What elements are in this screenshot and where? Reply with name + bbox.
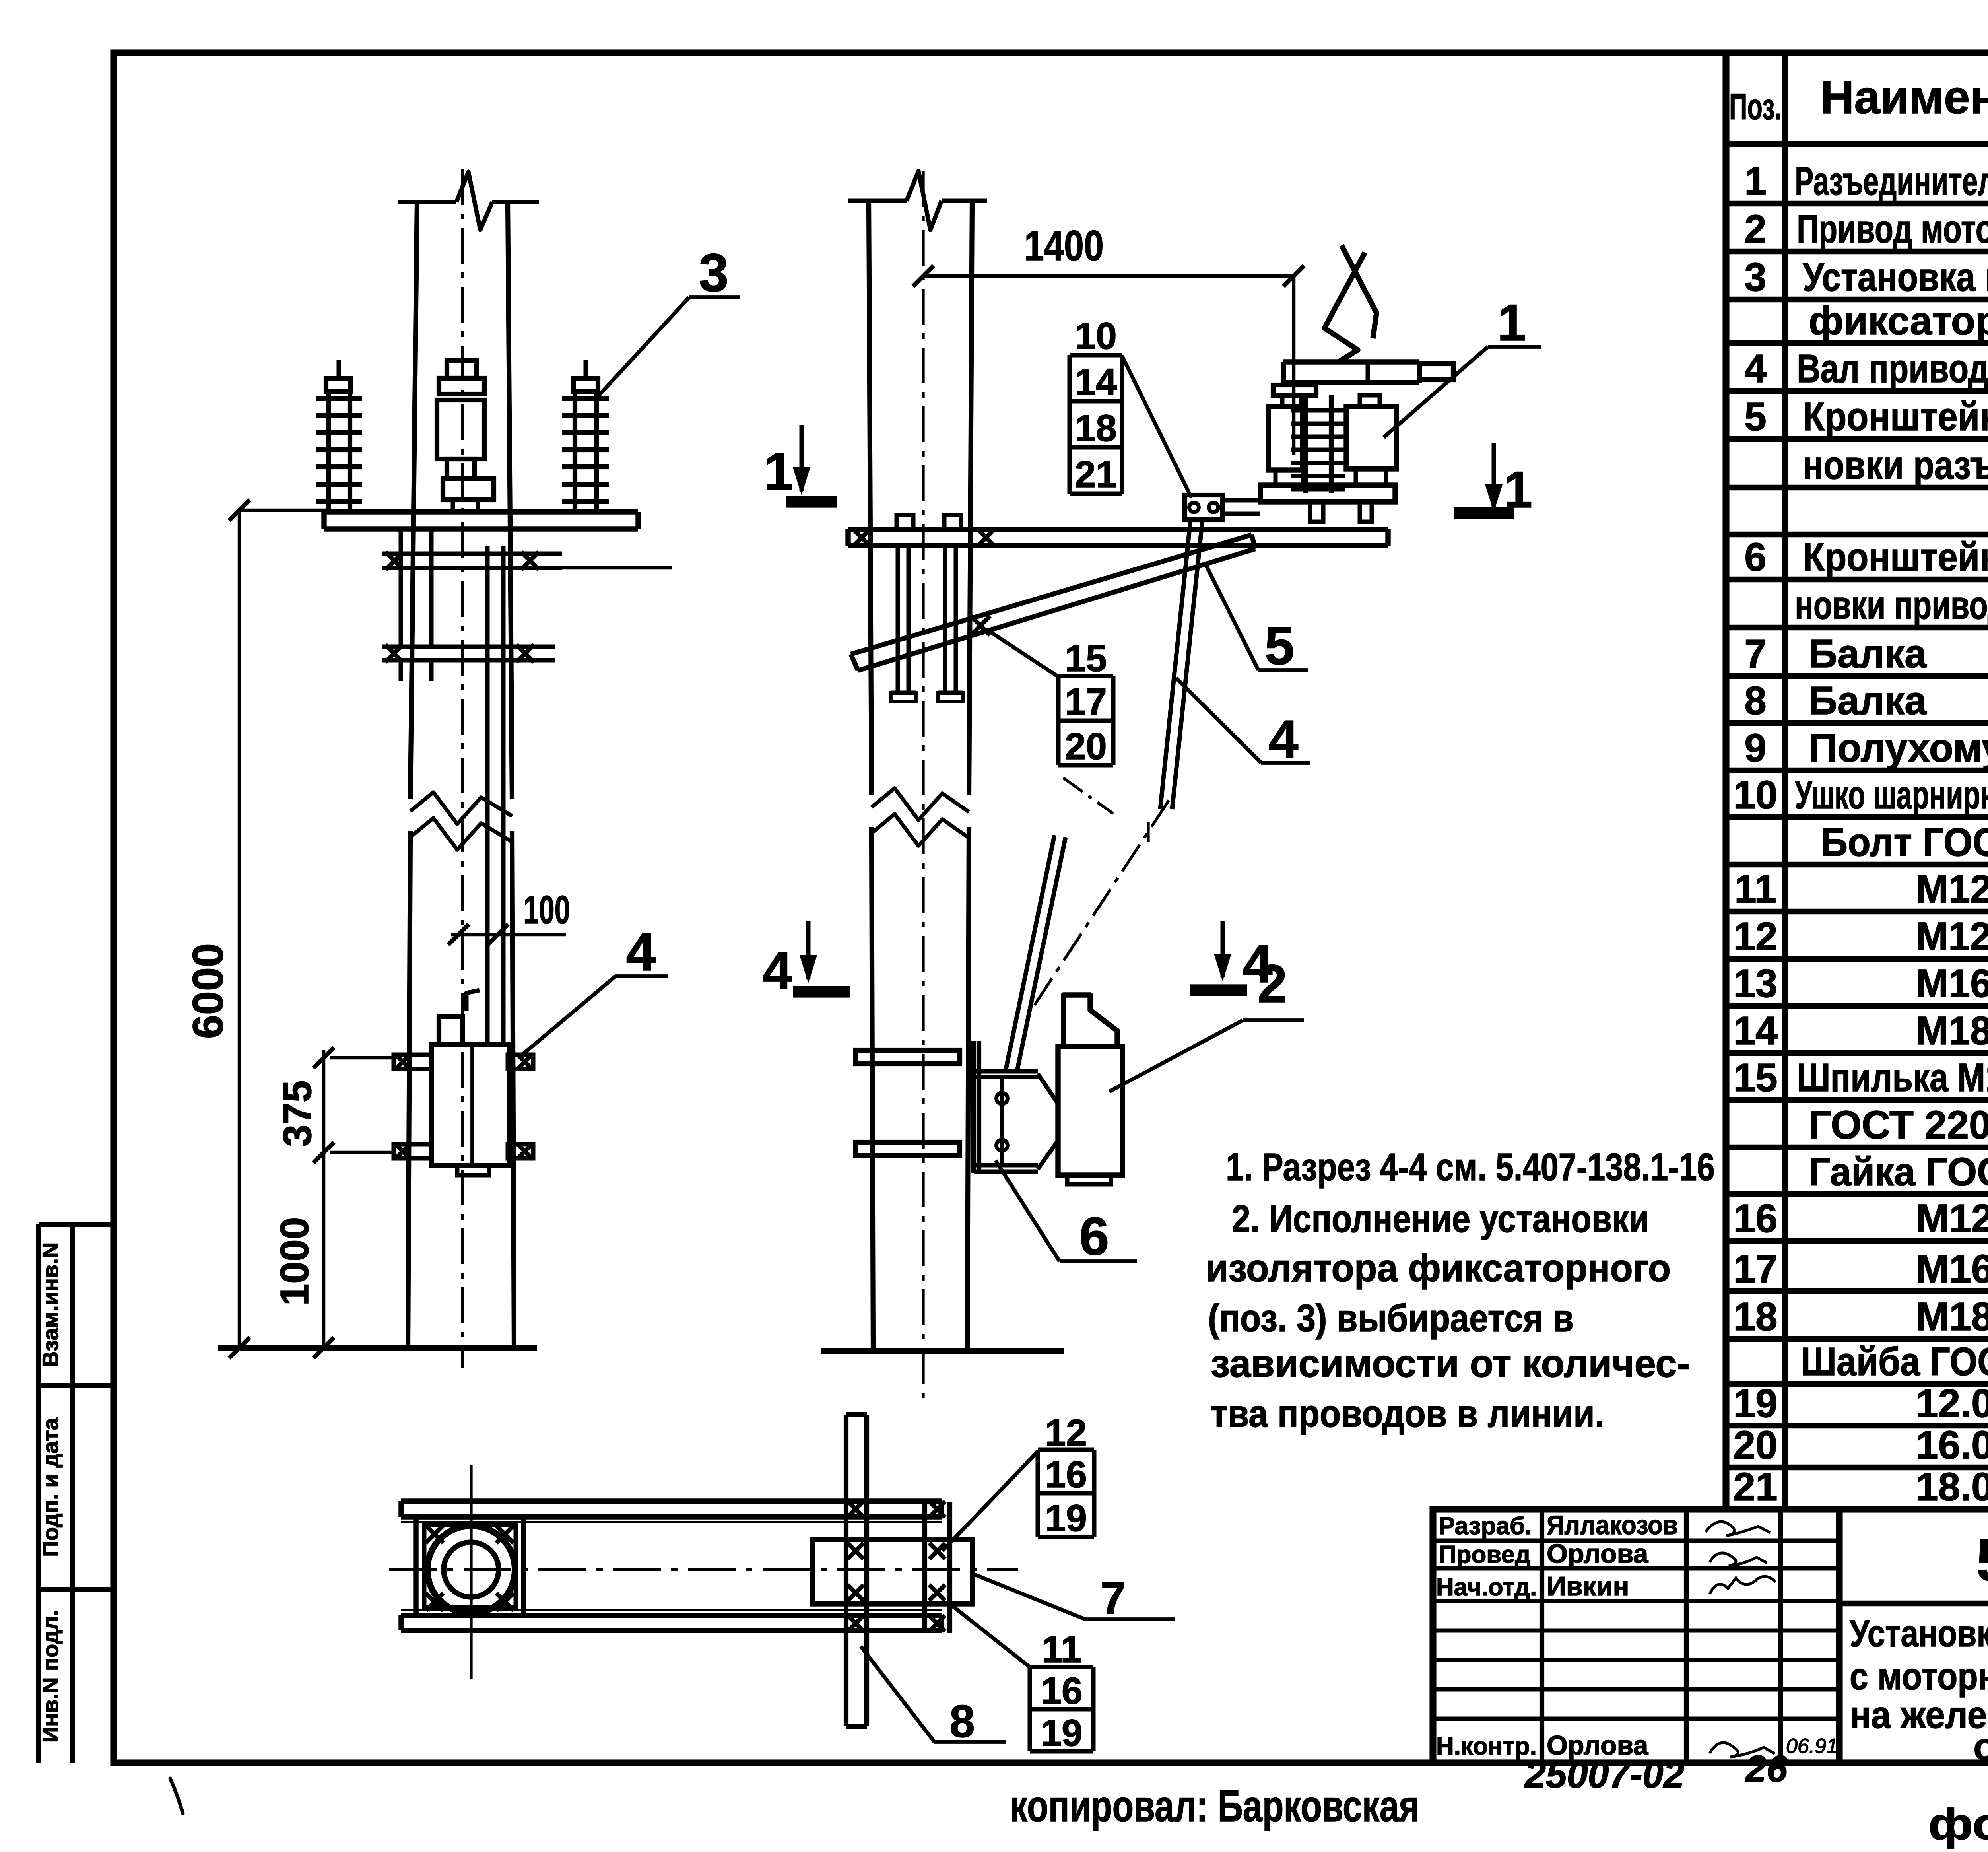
svg-text:9: 9 [1744,726,1767,770]
svg-text:11: 11 [1734,867,1776,911]
svg-text:3: 3 [1744,255,1767,299]
svg-text:19: 19 [1041,1712,1083,1754]
svg-text:Подп. и дата: Подп. и дата [38,1417,63,1557]
svg-text:16: 16 [1041,1670,1083,1712]
svg-text:4: 4 [762,941,792,1001]
svg-text:1400: 1400 [1024,222,1104,270]
svg-text:ГОСТ 22042-76: ГОСТ 22042-76 [1809,1103,1988,1147]
svg-text:М12-6Н.5: М12-6Н.5 [1916,1196,1988,1241]
svg-text:опоре.: опоре. [1973,1726,1988,1768]
svg-text:20: 20 [1733,1423,1777,1467]
svg-text:М16-6Н.5: М16-6Н.5 [1916,1247,1988,1291]
svg-text:Полухомут: Полухомут [1809,726,1988,770]
svg-text:Яллакозов: Яллакозов [1547,1510,1678,1540]
svg-text:8: 8 [1744,678,1767,723]
svg-text:Нач.отд.: Нач.отд. [1436,1574,1537,1601]
svg-text:Вал привода моторного: Вал привода моторного [1797,346,1988,391]
svg-text:6000: 6000 [184,943,232,1039]
svg-text:5. 407-138.1-14: 5. 407-138.1-14 [1976,1527,1988,1594]
svg-text:16: 16 [1045,1454,1087,1496]
svg-text:375: 375 [275,1080,320,1147]
svg-text:Инв.N подл.: Инв.N подл. [38,1610,63,1743]
svg-text:19: 19 [1733,1381,1777,1426]
svg-text:Установка разъединителя: Установка разъединителя [1850,1612,1988,1655]
svg-text:10: 10 [1075,315,1117,357]
svg-text:Болт ГОСТ 7798-70: Болт ГОСТ 7798-70 [1821,820,1988,865]
svg-text:новки разъединителя: новки разъединителя [1803,443,1988,488]
svg-text:с моторным приводом: с моторным приводом [1850,1655,1988,1698]
svg-text:Балка: Балка [1809,632,1927,676]
svg-text:Кронштейн для уста-: Кронштейн для уста- [1803,535,1988,579]
svg-text:16: 16 [1733,1196,1777,1241]
svg-text:1: 1 [1744,159,1767,204]
svg-text:16.04: 16.04 [1916,1423,1988,1467]
svg-text:26: 26 [1745,1748,1788,1790]
svg-text:Орлова: Орлова [1547,1539,1648,1569]
svg-text:21: 21 [1733,1465,1777,1509]
svg-text:12.04: 12.04 [1916,1381,1988,1426]
svg-text:06.91: 06.91 [1786,1735,1838,1758]
svg-text:Разраб.: Разраб. [1439,1512,1532,1540]
svg-text:4: 4 [1744,346,1767,391]
svg-text:Шайба ГОСТ 11371-78: Шайба ГОСТ 11371-78 [1801,1339,1988,1384]
svg-text:Поз.: Поз. [1729,87,1782,127]
svg-text:на железобетонной: на железобетонной [1850,1694,1988,1736]
svg-text:2: 2 [1257,954,1287,1014]
svg-text:М16-6g×40.58: М16-6g×40.58 [1916,961,1988,1006]
svg-text:6: 6 [1079,1206,1109,1266]
svg-text:20: 20 [1065,725,1107,768]
svg-text:М18-6Н.5: М18-6Н.5 [1916,1294,1988,1339]
svg-text:18: 18 [1733,1294,1777,1339]
svg-text:14: 14 [1075,361,1117,403]
svg-text:18: 18 [1075,407,1117,449]
svg-text:Провед: Провед [1439,1541,1530,1568]
svg-text:1. Разрез 4-4 см. 5.407-138.1-: 1. Разрез 4-4 см. 5.407-138.1-16 [1226,1145,1715,1189]
svg-text:фиксаторного: фиксаторного [1809,299,1988,343]
svg-text:копировал: Барковская: копировал: Барковская [1010,1781,1419,1831]
svg-text:10: 10 [1733,773,1777,817]
svg-text:1: 1 [1497,293,1526,352]
svg-text:М18-6g×50.58: М18-6g×50.58 [1916,1009,1988,1053]
svg-text:Установка изолятора: Установка изолятора [1803,255,1988,299]
svg-text:Привод моторный УМП-II: Привод моторный УМП-II [1797,207,1988,251]
svg-text:12: 12 [1733,914,1777,959]
svg-text:3: 3 [699,243,728,303]
svg-text:6: 6 [1744,535,1767,579]
svg-text:100: 100 [523,888,570,932]
svg-text:2. Исполнение установки: 2. Исполнение установки [1232,1197,1649,1240]
svg-text:формат:А3: формат:А3 [1928,1799,1988,1849]
svg-text:1: 1 [1504,461,1532,519]
svg-text:15: 15 [1065,637,1107,680]
svg-text:19: 19 [1045,1497,1087,1539]
svg-text:8: 8 [949,1696,975,1747]
svg-text:17: 17 [1733,1247,1777,1291]
svg-text:7: 7 [1744,632,1767,676]
svg-text:Н.контр.: Н.контр. [1436,1733,1537,1760]
svg-text:изолятора фиксаторного: изолятора фиксаторного [1206,1246,1671,1290]
svg-text:Балка: Балка [1809,678,1927,723]
svg-text:1000: 1000 [272,1217,317,1306]
svg-text:М12-6g×100.58: М12-6g×100.58 [1916,914,1988,959]
svg-text:Шпилька М16-6g×400.58: Шпилька М16-6g×400.58 [1797,1055,1988,1100]
svg-text:Взам.инв.N: Взам.инв.N [38,1242,63,1367]
svg-text:Кронштейн для уста-: Кронштейн для уста- [1803,394,1988,439]
svg-text:Ивкин: Ивкин [1547,1571,1629,1601]
svg-text:5: 5 [1264,616,1294,676]
svg-text:(поз. 3) выбирается в: (поз. 3) выбирается в [1208,1296,1574,1340]
svg-text:17: 17 [1065,681,1107,723]
svg-text:11: 11 [1042,1629,1081,1671]
svg-text:М12-6g×35.58: М12-6g×35.58 [1916,867,1988,911]
svg-text:новки привода моторного: новки привода моторного [1795,583,1988,628]
svg-text:25007-02: 25007-02 [1524,1754,1684,1796]
svg-text:Разъединитель РКС 3,3/3000: Разъединитель РКС 3,3/3000 [1795,159,1988,204]
svg-text:зависимости от количес-: зависимости от количес- [1211,1342,1690,1385]
svg-text:1: 1 [763,441,793,501]
svg-text:14: 14 [1733,1009,1778,1053]
svg-text:Наименование: Наименование [1820,71,1988,124]
svg-text:2: 2 [1744,207,1767,251]
svg-text:Гайка ГОСТ 5915-70: Гайка ГОСТ 5915-70 [1809,1150,1988,1194]
svg-text:4: 4 [626,922,656,982]
svg-text:4: 4 [1268,709,1298,769]
svg-text:21: 21 [1075,453,1117,496]
svg-text:15: 15 [1733,1055,1777,1100]
svg-text:тва проводов в линии.: тва проводов в линии. [1211,1392,1604,1435]
svg-text:7: 7 [1101,1573,1126,1624]
svg-text:18.04: 18.04 [1916,1465,1988,1509]
svg-text:5: 5 [1744,394,1767,439]
svg-text:Ушко шарнирное МПС 021-76: Ушко шарнирное МПС 021-76 [1795,773,1988,817]
svg-text:13: 13 [1733,961,1777,1006]
